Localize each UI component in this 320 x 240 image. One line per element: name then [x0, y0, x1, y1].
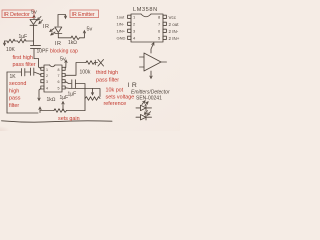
- svg-text:pass: pass: [9, 96, 21, 102]
- wire cap down: [33, 49, 35, 59]
- wire left branch to coupling cap: [7, 71, 21, 73]
- capacitor C4 coupling second: [30, 68, 32, 75]
- resistor R6 1k emitter zigzag: [71, 36, 80, 40]
- svg-text:LM358N: LM358N: [133, 7, 158, 13]
- capacitor C3 series: [71, 80, 73, 88]
- pinout pin stub 5: [163, 36, 166, 39]
- resistor R4 100k zigzag: [86, 61, 95, 65]
- svg-text:8: 8: [58, 68, 60, 72]
- svg-text:sets voltage: sets voltage: [106, 95, 135, 101]
- svg-text:4: 4: [46, 87, 48, 91]
- wire: [15, 40, 18, 42]
- junction tick: [94, 60, 96, 64]
- wire to X: [95, 62, 98, 64]
- pin 2 stub: [41, 74, 44, 77]
- red annotations: [2, 10, 134, 122]
- svg-text:10PF: 10PF: [37, 49, 49, 55]
- op-amp U3 triangle symbol: [144, 53, 161, 71]
- capacitor C1 10pF blocking cap: [31, 44, 41, 46]
- IC U2 LM358N pinout body: [131, 14, 163, 42]
- node X crossed mark: [98, 60, 104, 67]
- wire to 5v arrow: [80, 32, 85, 38]
- op-amp negative supply arrow: [150, 71, 152, 78]
- terminal arrow gain wire: [39, 108, 41, 113]
- pin 8 stub: [62, 67, 65, 70]
- photodiode incoming light arrows: [38, 17, 41, 20]
- svg-text:1µF: 1µF: [19, 34, 28, 40]
- pin 6 stub: [62, 80, 65, 83]
- svg-text:10K: 10K: [6, 47, 16, 53]
- potentiometer R5 10k zigzag: [85, 97, 100, 101]
- resistor R1 10K zigzag: [7, 39, 15, 43]
- svg-text:1out: 1out: [117, 15, 126, 20]
- resistor R2 1uF-labelled zigzag: [18, 39, 27, 43]
- wire cap to pot node: [75, 84, 85, 111]
- svg-text:5v: 5v: [60, 57, 66, 63]
- supply arrow gain node up: [62, 103, 64, 111]
- labels black text: [6, 7, 180, 103]
- pinout pin stub 7: [163, 22, 166, 25]
- LED D2 IR emitter: [55, 27, 62, 33]
- svg-text:3: 3: [46, 80, 48, 84]
- svg-text:IR: IR: [43, 24, 51, 30]
- resistor R3 1k gain zigzag: [54, 109, 67, 113]
- wire left feedback frame bottom: [7, 112, 38, 114]
- svg-text:7: 7: [58, 74, 60, 78]
- wire to output terminal: [5, 40, 8, 42]
- legend diode detector symbol: [136, 111, 152, 120]
- wire pin5 wiper rail: [65, 88, 100, 97]
- svg-text:5v: 5v: [87, 27, 93, 33]
- ground wire pin4: [39, 89, 41, 100]
- svg-text:high: high: [9, 88, 19, 94]
- svg-text:reference: reference: [104, 101, 127, 107]
- pin 3 stub: [41, 80, 44, 83]
- op-amp U1 DIP body schematic: [44, 65, 62, 92]
- wire emitter top bracket: [58, 15, 66, 27]
- wire emitter cathode: [58, 34, 71, 38]
- svg-text:1kΩ: 1kΩ: [47, 97, 56, 103]
- wire long bottom rail: [2, 121, 113, 122]
- svg-text:SEN-00241: SEN-00241: [136, 96, 162, 102]
- svg-text:2 IN+: 2 IN+: [169, 36, 180, 41]
- wire detector node down to blocking cap: [33, 41, 35, 45]
- pinout pin stub 1: [128, 15, 131, 18]
- potentiometer wiper arrow: [92, 89, 94, 95]
- svg-text:10k pot: 10k pot: [106, 88, 124, 94]
- svg-text:5: 5: [58, 87, 60, 91]
- paper background: [0, 0, 180, 131]
- box IR Detector: [2, 10, 34, 18]
- svg-text:1µF: 1µF: [60, 95, 69, 101]
- svg-text:pass filter: pass filter: [96, 77, 119, 83]
- svg-text:1: 1: [46, 68, 48, 72]
- wire between caps: [25, 71, 30, 73]
- wire pin6 to cap: [65, 82, 71, 84]
- pinout pin stub 6: [163, 29, 166, 32]
- svg-text:second: second: [9, 81, 26, 87]
- svg-text:1IN-: 1IN-: [117, 22, 125, 27]
- svg-text:IR Detector: IR Detector: [4, 12, 31, 18]
- pin 5 stub: [62, 86, 65, 89]
- legend diode emitter symbol: [136, 101, 152, 110]
- svg-text:2 IN-: 2 IN-: [169, 29, 179, 34]
- wire cap to pin2: [34, 72, 41, 75]
- svg-text:2: 2: [46, 74, 48, 78]
- wire gain to pot left: [67, 110, 86, 112]
- photodiode D1 IR detector: [30, 20, 37, 25]
- wire left feedback frame vertical: [6, 72, 8, 113]
- pin 4 stub: [41, 86, 44, 89]
- op-amp supply arrow: [151, 44, 154, 54]
- svg-text:sets gain: sets gain: [58, 116, 80, 122]
- svg-text:first high: first high: [13, 55, 33, 61]
- wire elbow to pin1: [34, 59, 41, 69]
- svg-text:IR: IR: [128, 82, 140, 89]
- svg-text:6: 6: [58, 80, 60, 84]
- svg-text:IR: IR: [55, 41, 63, 47]
- terminal output arrow down: [4, 41, 6, 45]
- svg-text:Vcc: Vcc: [169, 15, 177, 20]
- svg-text:1K: 1K: [10, 74, 17, 80]
- svg-text:blocking cap: blocking cap: [50, 49, 78, 55]
- pin 7 stub: [62, 74, 65, 77]
- svg-text:pass filter: pass filter: [13, 62, 36, 68]
- wire pin7 out: [65, 63, 86, 76]
- svg-text:IR Emitter: IR Emitter: [72, 12, 95, 18]
- wire detector cathode down: [33, 25, 35, 41]
- wire pin8 to 5v arrow: [65, 61, 67, 68]
- pinout pin stub 8: [163, 15, 166, 18]
- pinout pin stub 4: [128, 36, 131, 39]
- pin 1 stub: [41, 67, 44, 70]
- pinout pin stub 2: [128, 22, 131, 25]
- op-amp output stub: [161, 61, 167, 63]
- svg-text:GND: GND: [117, 36, 126, 41]
- pinout pin stub 3: [128, 29, 131, 32]
- svg-text:filter: filter: [9, 103, 19, 109]
- svg-text:1µF: 1µF: [68, 92, 77, 98]
- capacitor C2 coupling: [21, 69, 23, 76]
- box IR Emitter: [70, 10, 99, 18]
- svg-text:1kΩ: 1kΩ: [68, 40, 77, 46]
- svg-text:2 out: 2 out: [169, 22, 180, 27]
- wire gain resistor run: [40, 110, 54, 112]
- svg-text:100k: 100k: [80, 70, 91, 76]
- svg-text:1IN+: 1IN+: [117, 29, 126, 34]
- LED emitted light arrows: [51, 29, 55, 32]
- wire first high-pass horizontal: [26, 40, 34, 42]
- svg-text:third high: third high: [96, 70, 118, 76]
- node 5v detector supply arrow: [33, 16, 35, 19]
- op-amp input stubs: [140, 57, 145, 67]
